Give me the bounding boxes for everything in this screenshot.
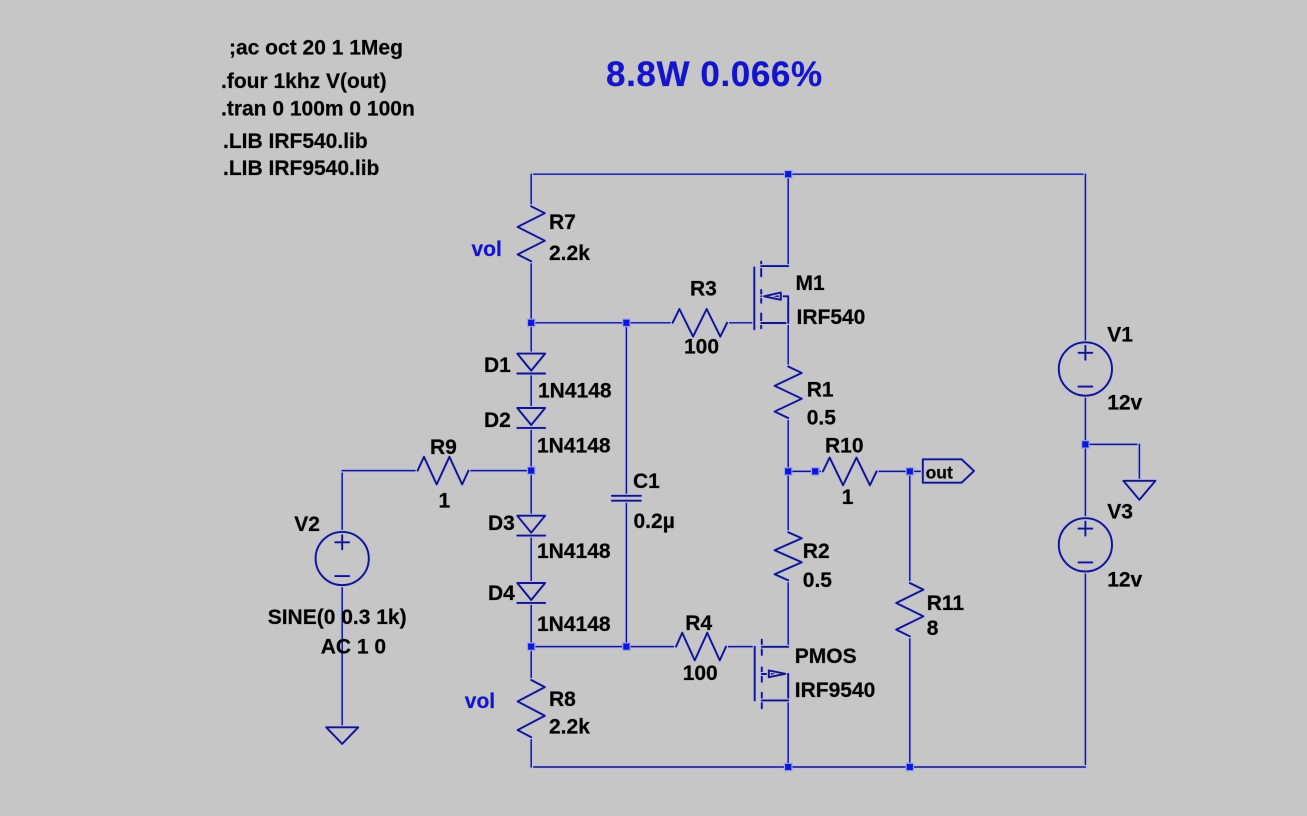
wire bottom rail xyxy=(531,765,1085,769)
wire right stub down xyxy=(1137,444,1141,480)
wire PMOS drain to rail xyxy=(786,700,790,767)
label R1 name xyxy=(807,379,834,402)
label R8 value xyxy=(549,716,590,739)
label directive lib1 xyxy=(223,130,368,153)
label D2 name xyxy=(484,409,511,432)
label D3 name xyxy=(488,512,515,535)
svg-text:.LIB IRF9540.lib: .LIB IRF9540.lib xyxy=(223,157,379,180)
svg-text:V1: V1 xyxy=(1107,324,1133,347)
wire V1 top lead xyxy=(1083,174,1087,342)
resistor R2 xyxy=(775,532,802,580)
svg-text:D1: D1 xyxy=(484,354,511,377)
svg-text:12v: 12v xyxy=(1107,568,1142,591)
node junction R10 left xyxy=(812,468,819,475)
label V3 value xyxy=(1107,568,1142,591)
wire top rail xyxy=(531,172,1085,176)
label net vol top xyxy=(472,238,502,261)
wire R11 top lead xyxy=(908,471,912,583)
svg-text:R2: R2 xyxy=(803,540,830,563)
svg-text:1N4148: 1N4148 xyxy=(538,380,612,403)
label R9 value xyxy=(439,490,451,513)
label R11 value xyxy=(927,617,939,640)
wire R9 left lead xyxy=(342,469,417,473)
svg-text:vol: vol xyxy=(472,238,502,261)
svg-text:0.5: 0.5 xyxy=(803,569,833,592)
label R4 name xyxy=(685,612,712,635)
svg-text:8: 8 xyxy=(927,617,939,640)
label directive four xyxy=(221,70,387,93)
svg-text:1: 1 xyxy=(439,490,451,513)
resistor R3 xyxy=(673,309,728,337)
svg-text:.LIB IRF540.lib: .LIB IRF540.lib xyxy=(223,130,368,153)
svg-text:V2: V2 xyxy=(294,513,320,536)
diode D3 xyxy=(517,516,545,536)
voltage source V2 xyxy=(316,532,369,585)
voltage source V3 xyxy=(1059,518,1112,571)
wire R10 to out flag xyxy=(877,469,913,473)
label V2 name xyxy=(294,513,320,536)
label V1 name xyxy=(1107,324,1133,347)
transistor M1 channel bars xyxy=(759,262,763,329)
node junction rail PMOS xyxy=(785,763,792,770)
resistor R1 xyxy=(775,367,802,419)
node junction rail R11 xyxy=(906,763,913,770)
capacitor C1 xyxy=(612,496,641,501)
node junction R1 bottom xyxy=(785,468,792,475)
resistor R9 xyxy=(418,457,469,485)
wire R11 bottom lead xyxy=(908,636,912,767)
label V3 name xyxy=(1107,500,1133,523)
wire out flag stub xyxy=(913,469,923,473)
svg-text:1: 1 xyxy=(842,486,854,509)
diode D4 xyxy=(517,583,545,603)
label R4 value xyxy=(683,662,718,685)
wire bottom node to C1 xyxy=(531,645,626,649)
node junction supply mid xyxy=(1082,441,1089,448)
node junction R7 bottom xyxy=(528,319,535,326)
transistor M1 bulk arrow xyxy=(764,293,781,300)
transistor PMOS bulk arrow xyxy=(769,670,786,677)
svg-text:;ac oct 20 1 1Meg: ;ac oct 20 1 1Meg xyxy=(229,37,403,60)
ground supply node xyxy=(1123,481,1155,500)
wire node to right stub xyxy=(1085,442,1139,446)
svg-text:.tran 0 100m 0 100n: .tran 0 100m 0 100n xyxy=(221,98,415,121)
wire node to D3 xyxy=(529,471,533,516)
label R10 name xyxy=(825,435,864,458)
transistor M1 gate bar xyxy=(752,268,756,330)
wire R9 right lead xyxy=(469,469,532,473)
label directive lib2 xyxy=(223,157,379,180)
transistor PMOS bulk lead xyxy=(762,674,788,700)
wire D1 anode lead xyxy=(529,323,533,354)
resistor R4 xyxy=(676,633,726,661)
svg-text:SINE(0 0.3 1k): SINE(0 0.3 1k) xyxy=(268,606,407,629)
svg-text:R3: R3 xyxy=(690,278,717,301)
svg-text:D3: D3 xyxy=(488,512,515,535)
wire V1 to node xyxy=(1083,395,1087,444)
label C1 name xyxy=(633,470,660,493)
wire R8 top lead xyxy=(529,647,533,680)
label out text xyxy=(926,462,953,482)
svg-text:2.2k: 2.2k xyxy=(549,242,590,265)
svg-text:100: 100 xyxy=(684,336,719,359)
node junction top rail xyxy=(785,171,792,178)
node junction C1 bottom xyxy=(623,643,630,650)
label D1 name xyxy=(484,354,511,377)
diode D2 xyxy=(517,408,545,428)
svg-text:1N4148: 1N4148 xyxy=(537,435,611,458)
svg-text:D2: D2 xyxy=(484,409,511,432)
svg-text:M1: M1 xyxy=(796,272,825,295)
svg-text:D4: D4 xyxy=(488,582,515,605)
wire M1 source to R1 xyxy=(786,323,790,367)
wire D1-D2 xyxy=(529,374,533,409)
label D3 value xyxy=(537,540,611,563)
svg-text:C1: C1 xyxy=(633,470,660,493)
wire C1 bottom lead xyxy=(624,501,628,647)
wire C1 tap to R3 xyxy=(626,321,672,325)
wire D4 to bottom node xyxy=(529,603,533,647)
wire V3 bottom lead xyxy=(1083,571,1087,767)
wire R7 top lead xyxy=(529,174,533,206)
label R2 value xyxy=(803,569,833,592)
transistor M1 drain lead xyxy=(761,264,788,268)
svg-text:IRF540: IRF540 xyxy=(797,306,866,329)
label R1 value xyxy=(807,406,837,429)
svg-text:2.2k: 2.2k xyxy=(549,716,590,739)
wire D3-D4 xyxy=(529,536,533,583)
label R3 name xyxy=(690,278,717,301)
svg-text:1N4148: 1N4148 xyxy=(537,540,611,563)
svg-text:out: out xyxy=(926,462,953,482)
svg-text:R10: R10 xyxy=(825,435,864,458)
wire V2 top lead xyxy=(340,471,344,532)
wire out node to R10 xyxy=(788,469,823,473)
svg-text:IRF9540: IRF9540 xyxy=(795,679,876,702)
svg-text:8.8W 0.066%: 8.8W 0.066% xyxy=(606,55,823,94)
label R7 name xyxy=(549,211,576,234)
label R7 value xyxy=(549,242,590,265)
resistor R10 xyxy=(823,458,877,486)
label R10 value xyxy=(842,486,854,509)
wire C1 to R4 xyxy=(626,645,676,649)
label C1 value xyxy=(634,510,675,533)
wire V3 top lead xyxy=(1083,444,1087,518)
ground V2 xyxy=(326,727,358,744)
svg-text:vol: vol xyxy=(465,690,495,713)
svg-text:R8: R8 xyxy=(549,688,576,711)
label directive ac xyxy=(229,37,403,60)
label net vol bottom xyxy=(465,690,495,713)
wire V2 bottom lead xyxy=(340,585,344,727)
transistor PMOS drain lead xyxy=(762,698,788,702)
svg-text:PMOS: PMOS xyxy=(795,645,857,668)
label M1 value xyxy=(797,306,866,329)
svg-text:R1: R1 xyxy=(807,379,834,402)
wire R7 bottom lead xyxy=(529,261,533,323)
transistor PMOS gate bar xyxy=(753,647,757,701)
svg-text:.four 1khz V(out): .four 1khz V(out) xyxy=(221,70,387,93)
node junction out xyxy=(906,468,913,475)
svg-text:AC 1 0: AC 1 0 xyxy=(321,636,386,659)
label R8 name xyxy=(549,688,576,711)
label V2 value ac xyxy=(321,636,386,659)
label M1 name xyxy=(796,272,825,295)
label R11 name xyxy=(927,592,965,615)
svg-text:0.5: 0.5 xyxy=(807,406,837,429)
label comment power xyxy=(606,55,823,94)
svg-text:R11: R11 xyxy=(927,592,965,615)
label PMOS value xyxy=(795,679,876,702)
label D4 value xyxy=(537,613,611,636)
resistor R7 xyxy=(518,206,545,261)
svg-text:100: 100 xyxy=(683,662,718,685)
resistor R8 xyxy=(518,680,545,737)
node junction diodes bottom xyxy=(528,643,535,650)
node out flag xyxy=(923,459,974,482)
wire R2 to PMOS xyxy=(786,580,790,646)
node junction R9-diodes xyxy=(528,467,535,474)
transistor PMOS channel bars xyxy=(760,640,764,709)
transistor M1 bulk lead xyxy=(761,296,788,323)
label R2 name xyxy=(803,540,830,563)
svg-text:1N4148: 1N4148 xyxy=(537,613,611,636)
label D4 name xyxy=(488,582,515,605)
wire out node down R2 xyxy=(786,471,790,532)
svg-text:12v: 12v xyxy=(1107,392,1142,415)
label D1 value xyxy=(538,380,612,403)
wire M1 drain to rail xyxy=(786,174,790,266)
wire R8 bottom lead xyxy=(529,737,533,767)
label R3 value xyxy=(684,336,719,359)
wire C1 top lead xyxy=(624,323,628,496)
wire R3 to M1 gate xyxy=(727,321,754,325)
label V2 value sine xyxy=(268,606,407,629)
resistor R11 xyxy=(896,583,923,636)
node junction C1 top xyxy=(623,319,630,326)
transistor M1 source lead xyxy=(761,321,788,325)
label V1 value xyxy=(1107,392,1142,415)
svg-text:V3: V3 xyxy=(1107,500,1133,523)
transistor PMOS source lead xyxy=(762,645,788,649)
wire R1 to out node xyxy=(786,418,790,471)
label R9 name xyxy=(430,436,457,459)
svg-text:R7: R7 xyxy=(549,211,576,234)
label directive tran xyxy=(221,98,415,121)
label PMOS name xyxy=(795,645,857,668)
wire D2 to node xyxy=(529,428,533,471)
label D2 value xyxy=(537,435,611,458)
svg-text:R9: R9 xyxy=(430,436,457,459)
wire R4 to PMOS gate xyxy=(726,645,755,649)
svg-text:0.2µ: 0.2µ xyxy=(634,510,675,533)
voltage source V1 xyxy=(1059,342,1112,395)
wire mid row to C1 tap xyxy=(531,321,626,325)
svg-text:R4: R4 xyxy=(685,612,712,635)
diode D1 xyxy=(517,354,545,374)
